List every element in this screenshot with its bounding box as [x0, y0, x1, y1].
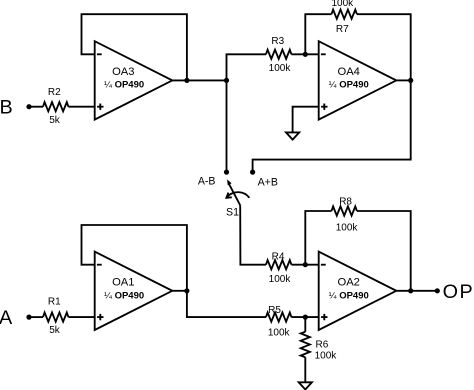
svg-text:100k: 100k [269, 274, 292, 285]
wire OA1 feedback loop [82, 225, 187, 291]
wire OA3 output [172, 79, 226, 81]
wire OA3 feedback loop [82, 14, 187, 80]
wire OA4 + input to ground [293, 107, 319, 133]
svg-text:R7: R7 [336, 24, 349, 35]
svg-text:R5: R5 [268, 305, 281, 316]
svg-text:A: A [0, 307, 13, 329]
node OA2 output junction [408, 288, 413, 293]
wire B to R2 [29, 106, 43, 108]
resistor R7 [331, 0, 356, 35]
svg-text:R4: R4 [272, 251, 285, 262]
switch S1 [226, 179, 249, 218]
op-amp OA3 [95, 41, 173, 119]
node A-B terminal [224, 170, 229, 175]
node OA3 output junction [184, 78, 189, 83]
svg-text:100k: 100k [331, 0, 354, 9]
svg-text:R3: R3 [271, 36, 284, 47]
op-amp OA1 [95, 252, 173, 330]
wire R1 to OA1 + input [68, 316, 94, 318]
wire OA1 output down to R5 [187, 291, 266, 317]
wire R8 feedback right [357, 211, 411, 291]
resistor R8 [332, 197, 359, 234]
svg-text:OP: OP [443, 281, 474, 303]
node OA4 output junction [408, 78, 413, 83]
resistor R6 [301, 332, 338, 362]
resistor R3 [266, 36, 291, 74]
svg-text:OA4: OA4 [338, 66, 360, 78]
op-amp OA2 [319, 252, 397, 330]
svg-text:OA1: OA1 [112, 276, 134, 288]
wire OA4 output [396, 79, 410, 81]
svg-text:A+B: A+B [258, 176, 278, 188]
wire OA2 output [396, 290, 437, 292]
svg-text:100k: 100k [268, 328, 291, 339]
wire junction down to A-B terminal [226, 80, 228, 172]
node OA1 output junction [184, 288, 189, 293]
svg-text:B: B [0, 97, 13, 119]
svg-text:5k: 5k [49, 115, 61, 126]
svg-text:R6: R6 [316, 340, 329, 351]
wire OA1 output [172, 290, 187, 292]
svg-text:R1: R1 [48, 296, 61, 307]
wire junction down to R6 [304, 317, 306, 332]
node switch branch junction [224, 78, 229, 83]
ground (R6) [299, 382, 312, 389]
input terminal B [0, 97, 32, 119]
wire R6 to ground [304, 357, 306, 382]
wire R4 to OA2 - input [291, 264, 318, 266]
wire R2 to OA3 + input [68, 106, 94, 108]
resistor R2 [43, 87, 68, 126]
wire R7 feedback left [305, 14, 331, 54]
output terminal OP [435, 281, 474, 303]
input terminal A [0, 307, 32, 329]
svg-text:100k: 100k [336, 222, 359, 233]
wire R5 to OA2 + input [291, 316, 318, 318]
node A+B terminal [250, 170, 255, 175]
wire R7 feedback right [357, 14, 411, 80]
svg-text:¼ OP490: ¼ OP490 [104, 291, 144, 302]
wire OA4 output return to A+B [253, 80, 411, 172]
resistor R5 [266, 305, 291, 339]
wire junction up to R3 [227, 54, 267, 80]
node R3/R7 junction [303, 52, 308, 57]
wire S1 common to R4 [240, 205, 266, 264]
wire R3 to OA4 - input [291, 53, 318, 55]
wire A to R1 [29, 316, 43, 318]
svg-text:A-B: A-B [198, 176, 216, 188]
svg-text:R2: R2 [48, 87, 61, 98]
svg-text:OA3: OA3 [112, 66, 134, 78]
svg-text:¼ OP490: ¼ OP490 [104, 79, 144, 90]
node R4/R8 junction [303, 262, 308, 267]
svg-text:¼ OP490: ¼ OP490 [329, 79, 369, 90]
wire R8 feedback left [305, 211, 331, 265]
svg-text:100k: 100k [269, 63, 292, 74]
resistor R4 [266, 251, 291, 285]
svg-text:OA2: OA2 [338, 276, 360, 288]
svg-text:¼ OP490: ¼ OP490 [329, 291, 369, 302]
node R5/R6 junction [303, 315, 308, 320]
svg-text:R8: R8 [339, 197, 352, 208]
svg-text:S1: S1 [226, 206, 239, 218]
svg-text:5k: 5k [49, 325, 61, 336]
resistor R1 [43, 296, 68, 336]
op-amp OA4 [319, 41, 397, 119]
svg-text:100k: 100k [315, 350, 338, 361]
ground (OA4) [286, 132, 299, 139]
